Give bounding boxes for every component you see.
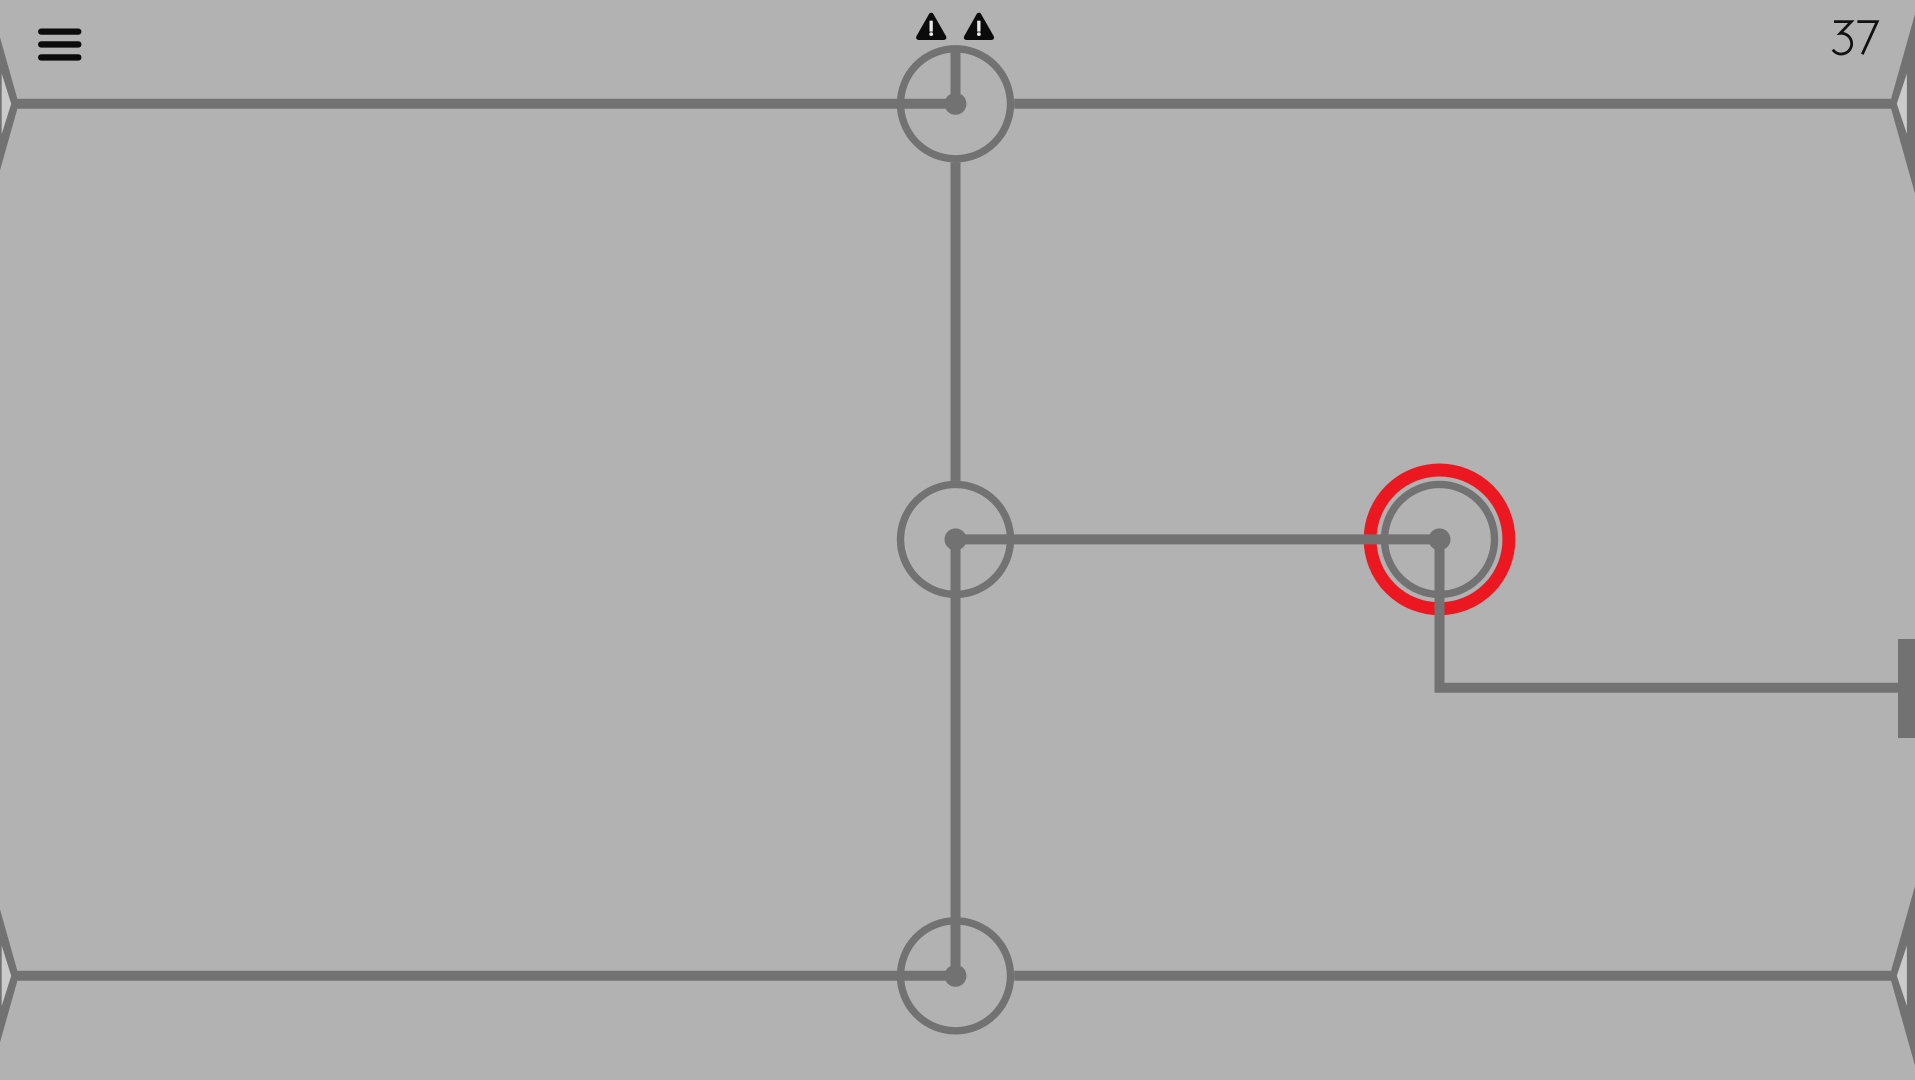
node red-selected: ring	[1385, 484, 1495, 594]
wire top-right horizontal	[1014, 99, 1896, 109]
warning icon 1	[919, 15, 944, 37]
node middle: ring	[901, 484, 1011, 594]
level counter "37"	[1833, 22, 1877, 55]
wire vertical top to middle node	[951, 163, 961, 481]
red highlight ring on selected node	[1370, 470, 1509, 609]
wire bottom-left horizontal	[12, 971, 956, 981]
node top: dot	[945, 93, 967, 115]
T-bar end cap right edge	[1898, 639, 1915, 738]
node red-selected: dot	[1429, 528, 1451, 550]
exit chevron top-right	[1890, 0, 1915, 220]
wire bottom-right horizontal	[1014, 971, 1896, 981]
wire red node down and elbow right	[1440, 539, 1899, 687]
node top: ring	[901, 49, 1011, 159]
node bottom: ring	[901, 921, 1011, 1031]
node bottom: dot	[945, 965, 967, 987]
exit chevron bottom-left	[0, 860, 19, 1080]
menu button (hamburger)	[38, 29, 81, 61]
wire middle to red node horizontal	[956, 534, 1440, 544]
wire top node up stub	[951, 45, 961, 103]
warning icon 2	[966, 15, 991, 37]
node middle: dot	[945, 528, 967, 550]
exit chevron bottom-right	[1890, 859, 1915, 1080]
exit chevron top-left	[0, 0, 19, 220]
wire vertical middle to bottom node	[951, 539, 961, 975]
wire top-left horizontal	[12, 99, 956, 109]
